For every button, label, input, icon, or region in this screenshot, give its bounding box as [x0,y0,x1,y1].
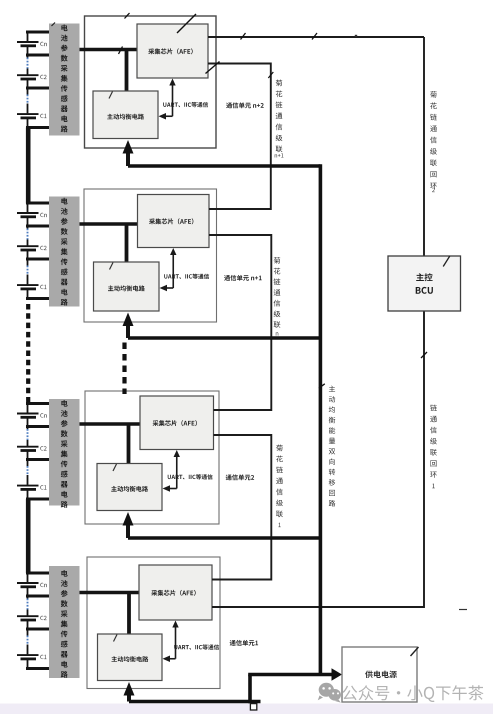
power arrow into unit 1 [123,140,134,166]
battery cell group, unit 1 [17,32,50,128]
wire: measurement bus from sensor bar to AFE, unit 4 [80,591,141,594]
BCU box 主控 [388,256,461,311]
tick marks on daisy-chain top wire [241,33,358,40]
wire: daisy-chain return loop BCU to unit4 [212,311,424,607]
slash on AFE1 lower output [206,62,220,74]
wire: battery series link unit1-unit2 [26,128,31,204]
tick on unit1 measurement bus [119,47,123,55]
label 通信单元2 [226,474,254,480]
label UART、IIC等通信, unit 4 [174,644,219,649]
battery cell group, unit 2 [17,203,50,299]
dashed feed continuation (omitted units) [122,343,126,395]
tick on return line [421,352,427,358]
arrowhead into power supply [332,668,343,680]
AFE chip box 采集芯片（AFE）, unit 1 [137,24,208,78]
power arrow into unit 2 [123,313,134,339]
sensor bar 电池参数采集传感器电路, unit 4 [49,566,80,678]
label 菊花链通信级联 n+1 [275,80,284,158]
label 主动均衡能量双向转移回路 [329,386,336,507]
tick at unit1 output turn [268,72,273,78]
label 链通信级联回环 1 [430,405,437,489]
connector handle (small square) [250,704,256,710]
wire: balancing tap down to balancer, unit 3 [127,424,131,464]
UART/IIC link arrows, unit 2 [160,248,177,291]
communication unit box 1 (outer) [85,16,217,148]
wire: battery series link unit3-unit4 [26,499,31,573]
communication unit box 2 (outer) [84,189,217,322]
communication unit box 4 (outer) [87,557,220,689]
thick feed line unit3 [128,536,320,540]
label 通信单元 n+1 [224,275,262,281]
wire: balancing tap down to balancer, unit 4 [127,593,131,635]
tick at sensor bar top, unit 1 [52,23,56,27]
UART/IIC link arrows, unit 1 [159,79,176,120]
wire: unit4 power path to supply [129,700,261,704]
sensor bar 电池参数采集传感器电路, unit 3 [49,399,80,508]
wire: daisy-chain unit1 lower output [208,64,271,210]
label 菊花链通信级联 1 [276,445,283,528]
thick feed line unit1 [128,164,320,168]
AFE chip box 采集芯片（AFE）, unit 4 [139,565,212,620]
label UART、IIC等通信, unit 3 [168,474,213,479]
label UART、IIC等通信, unit 2 [164,274,209,279]
wire: dashed battery continuation (omitted cells) [26,304,30,402]
wire: daisy-chain right vertical down to BCU [423,37,425,256]
power arrow into unit 4 [124,682,135,702]
slash across AFE1 top [177,14,196,33]
sensor bar 电池参数采集传感器电路, unit 2 [49,197,80,307]
wire: daisy-chain unit2 output to unit3 [209,235,271,410]
power supply box 供电电源 [342,647,419,702]
label 菊花链通信级联回环 2 [430,91,437,192]
UART/IIC link arrows, unit 3 [163,450,180,492]
label 菊花链通信级联 n [274,257,281,336]
UART/IIC link arrows, unit 4 [163,621,179,662]
balancer box 主动均衡电路, unit 4 [98,634,163,681]
cell labels Cn C2 C1, unit 1 [40,42,47,118]
bottom lavender strip [0,704,493,715]
wire: balancing tap down to balancer, unit 1 [125,50,129,92]
wire: daisy-chain unit3 output to unit4 [212,435,271,580]
balancer box 主动均衡电路, unit 3 [97,464,162,511]
battery cell group, unit 3 [17,404,50,500]
cell labels Cn C2 C1, unit 2 [40,213,47,289]
wire: measurement bus from sensor bar to AFE, unit 1 [80,48,139,51]
tick on energy trunk [319,384,325,388]
sensor bar 电池参数采集传感器电路, unit 1 [49,24,80,136]
balancer box 主动均衡电路, unit 2 [94,262,160,311]
wire: measurement bus from sensor bar to AFE, unit 2 [80,222,139,225]
power arrow into unit 3 [123,512,134,538]
thick feed line unit2 [128,336,320,340]
label 通信单元 n+2 [226,102,264,108]
communication unit box 3 (outer) [85,391,219,524]
balancer box 主动均衡电路, unit 1 [93,91,158,139]
cell labels Cn C2 C1, unit 4 [40,583,47,659]
label 通信单元1 [230,640,258,646]
cell labels Cn C2 C1, unit 3 [40,413,47,489]
wire: measurement bus from sensor bar to AFE, unit 3 [80,422,142,425]
label UART、IIC等通信, unit 1 [163,102,208,107]
AFE chip box 采集芯片（AFE）, unit 3 [140,396,214,450]
watermark wechat icon [318,683,341,703]
wire: balancing tap down to balancer, unit 2 [125,224,129,262]
tick on unit1 box top edge [125,13,130,19]
stray dash right of return [459,609,467,611]
AFE chip box 采集芯片（AFE）, unit 2 [138,195,210,248]
thick energy-transfer trunk [319,164,323,674]
watermark text 公众号·小Q下午茶 [342,685,483,702]
battery cell group, unit 4 [17,573,50,669]
wire: daisy-chain unit1 to BCU (top) [208,36,424,38]
